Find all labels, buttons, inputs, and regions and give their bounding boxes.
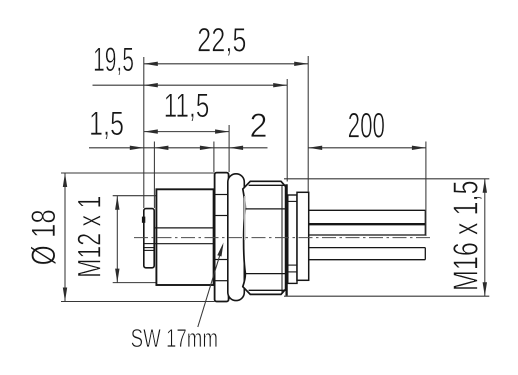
- wire outline 4: [309, 247, 426, 249]
- connector front stub (seal): [144, 209, 154, 268]
- svg-text:22,5: 22,5: [197, 22, 246, 60]
- ext line x=143.8: [143, 57, 145, 208]
- svg-text:19,5: 19,5: [93, 41, 134, 79]
- arrowheads: [63, 62, 487, 302]
- arrow M16 bottom: [483, 282, 487, 296]
- dim line 19,5: [93, 84, 288, 86]
- ext line x=229.1: [228, 125, 230, 172]
- M12 ext bottom: [113, 282, 156, 284]
- gray shading sliver: [244, 196, 246, 240]
- arrow 22,5 right: [294, 62, 308, 66]
- wire outline 5: [309, 259, 426, 261]
- wire end cap upper: [424, 210, 426, 235]
- body slot line lower: [155, 243, 214, 245]
- M12 dim line: [116, 196, 118, 283]
- nut facet line upper: [245, 208, 285, 210]
- svg-text:SW 17mm: SW 17mm: [131, 323, 218, 353]
- ext line x=213.9: [213, 142, 215, 173]
- ext line x=308.2: [307, 56, 309, 192]
- collar inner line low1: [288, 264, 297, 266]
- collar inner line top: [288, 200, 297, 202]
- arrow M12 top: [115, 196, 119, 210]
- body slot line upper: [155, 227, 214, 229]
- flange washer O18: [215, 173, 229, 302]
- arrow M12 bottom: [115, 269, 119, 283]
- svg-text:M16 x 1,5: M16 x 1,5: [447, 180, 486, 291]
- centerline: [134, 237, 433, 239]
- washer facet line 1: [215, 194, 229, 196]
- svg-text:2: 2: [250, 107, 268, 145]
- arrow 22,5 left: [144, 62, 158, 66]
- svg-text:1,5: 1,5: [89, 105, 124, 143]
- arrow 200 left: [308, 146, 322, 150]
- svg-text:Ø 18: Ø 18: [25, 209, 63, 265]
- dia18 ext bottom: [61, 301, 215, 303]
- arrow M16 top: [483, 179, 487, 193]
- svg-text:M12 x 1: M12 x 1: [70, 196, 107, 278]
- wire outline 2 thick: [309, 223, 426, 225]
- wire outline 1: [309, 209, 426, 211]
- arrow dia18 top: [63, 173, 67, 187]
- arrow 2 left outside: [200, 146, 214, 150]
- M16 ext top: [284, 178, 489, 180]
- dim line 200 segment: [308, 147, 426, 149]
- washer facet line 3: [215, 259, 229, 261]
- arrow 19,5 right: [273, 83, 287, 87]
- collar inner line low2: [288, 271, 297, 273]
- arrow 11,5 right: [215, 129, 229, 133]
- arrow 19,5 left: [144, 83, 158, 87]
- washer facet line 4: [215, 280, 229, 282]
- leader SW17: [198, 246, 223, 328]
- stub groove lines: [144, 243, 154, 245]
- nut inner edge top: [249, 184, 286, 186]
- ext line x=425.9: [425, 142, 427, 237]
- nut rear face thick: [285, 184, 287, 296]
- M16 ext bottom: [284, 295, 489, 297]
- ext line x=287.2: [286, 79, 288, 182]
- arrow 1,5 left outside: [130, 146, 144, 150]
- svg-text:200: 200: [348, 105, 385, 145]
- rear disc: [297, 192, 309, 280]
- stub keyway tick: [142, 217, 145, 223]
- wire outline 3: [309, 234, 426, 236]
- wire end cap lower: [424, 248, 426, 260]
- arrow 200 right: [412, 146, 426, 150]
- rear collar: [288, 195, 297, 283]
- arrow dia18 bottom: [63, 288, 67, 302]
- dia18 ext top: [61, 172, 215, 174]
- nut inner edge bottom: [249, 289, 286, 291]
- o-ring capsule: [228, 174, 245, 301]
- arrow 2 right outside: [229, 146, 243, 150]
- ext line x=154.4: [153, 142, 155, 209]
- arrow 1,5 right outside: [154, 146, 168, 150]
- nut right chamfer line: [281, 186, 283, 294]
- M12 ext top: [113, 195, 156, 197]
- hex nut SW17: [243, 181, 286, 294]
- M16 dim line: [484, 179, 486, 296]
- main body M12: [156, 189, 213, 285]
- nut facet line lower: [245, 273, 285, 275]
- dim line row 1,5 / 2 left segment: [89, 147, 268, 149]
- arrow leader SW17: [217, 242, 225, 257]
- washer facet line 2: [215, 215, 229, 217]
- dim line 11,5: [144, 131, 229, 133]
- arrow 11,5 left: [144, 129, 158, 133]
- svg-text:11,5: 11,5: [164, 87, 210, 125]
- dia18 dim line: [64, 173, 66, 302]
- dim line 22,5: [144, 63, 308, 65]
- dimension graphics: [61, 56, 489, 327]
